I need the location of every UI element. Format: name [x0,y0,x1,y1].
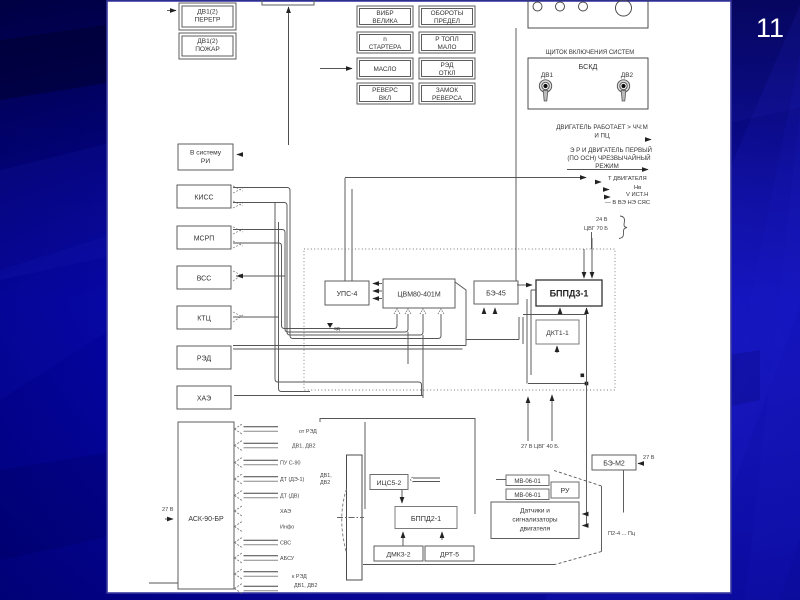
svg-text:ДВ1, ДВ2: ДВ1, ДВ2 [294,583,317,589]
svg-text:МАЛО: МАЛО [438,44,457,51]
block РУ [551,482,579,498]
wire long vertical 2 [279,222,311,392]
block ДКТ1-1 [536,320,579,344]
svg-text:двигателя: двигателя [520,526,551,533]
arrow up into БЭ-45 right [494,308,496,314]
block МВ-06-01 upper [506,475,549,486]
arrow into ПЕРЕГР [167,10,176,12]
box КТЦ [177,306,231,329]
wire vertical x=527 [526,299,528,384]
svg-text:ПРЕДЕЛ: ПРЕДЕЛ [434,18,460,25]
svg-text:— В ВЭ НЭ СЯС: — В ВЭ НЭ СЯС [605,200,650,206]
svg-text:ПУ С-90: ПУ С-90 [280,461,300,467]
svg-text:эд: эд [334,326,341,332]
svg-text:ДВ2: ДВ2 [621,72,634,79]
arrow line under РЕЖИМ [567,169,648,171]
box В систему РИ [178,144,233,170]
svg-text:БЭ-45: БЭ-45 [486,291,506,298]
svg-text:КИСС: КИСС [194,195,213,202]
svg-text:РЭД: РЭД [197,356,211,363]
svg-text:ХАЭ: ХАЭ [280,509,291,515]
АСК connector row 3 [235,458,243,468]
label 24 В ЦВГ-70 Б [584,217,608,232]
toggle switch ДВ1 [539,80,551,101]
svg-text:ОБОРОТЫ: ОБОРОТЫ [431,10,464,17]
svg-text:27 В: 27 В [643,455,655,461]
arrow small 3 [605,196,610,198]
svg-text:ОТКЛ: ОТКЛ [439,70,456,77]
wire stub below ЦВМ80 a [407,332,409,364]
wire ХАЭ [234,395,423,397]
frame line left vertical [364,422,366,509]
arrow ДРТ-5 up to БППД2-1 [441,532,443,540]
wire into МВ-06-01 [496,479,506,481]
svg-text:к РЭД: к РЭД [292,574,307,580]
box РЭД [177,346,231,369]
background streak 2 [545,0,800,600]
arrow into МАСЛО [320,68,352,70]
svg-text:сигнализаторы: сигнализаторы [512,517,557,524]
wire double line from ИЦС5-2 [413,478,440,482]
svg-text:МВ-06-01: МВ-06-01 [514,479,541,485]
svg-text:ДМК3-2: ДМК3-2 [386,552,410,559]
wire БЭ-45 to БППД3-1 with arrow [517,284,532,286]
block УПС-4 [325,281,369,305]
svg-text:ЩИТОК ВКЛЮЧЕНИЯ СИСТЕМ: ЩИТОК ВКЛЮЧЕНИЯ СИСТЕМ [546,50,635,56]
arrow into ВСС [237,275,242,277]
block БЭ-М2 [592,455,636,470]
wire РЭД double line [233,346,466,350]
svg-text:БЭ-М2: БЭ-М2 [603,461,625,468]
svg-text:ДВ1, ДВ2: ДВ1, ДВ2 [292,444,315,450]
block ДРТ-5 [425,546,474,561]
svg-text:ДТ (ДЭ-1): ДТ (ДЭ-1) [280,477,305,483]
wire stem from ЦВГ label down [591,232,593,249]
arrow into Датчики lower [583,525,587,527]
АСК connector row 5 [235,491,243,501]
svg-text:Э Р И ДВИГАТЕЛЬ ПЕРВЫЙ: Э Р И ДВИГАТЕЛЬ ПЕРВЫЙ [570,146,652,154]
svg-text:РЕВЕРС: РЕВЕРС [372,87,398,94]
panel БСКД [528,58,648,109]
АСК connector row 7 [235,522,243,532]
svg-text:ХАЭ: ХАЭ [197,396,211,403]
АСК connector row 6 [235,506,243,516]
annunciator МАСЛО [357,58,413,79]
top partial box [262,0,314,5]
connector ticks МСРП [233,227,243,248]
wire МСРП line 1 [233,230,408,333]
connector ticks КТЦ [233,312,243,322]
annunciator n СТАРТЕРА [357,32,413,53]
svg-text:ИЦС5-2: ИЦС5-2 [377,480,402,487]
wire stub x=519 [518,317,520,340]
wire rail under БППД3-1 [523,314,587,316]
block БППД2-1 [395,507,457,529]
svg-text:ДВ1: ДВ1 [541,72,554,79]
svg-text:ВСС: ВСС [197,276,212,283]
block ДМК3-2 [374,546,423,561]
dashed boundary engine zone upper [554,471,602,487]
text ЭРИ ДВИГАТЕЛЬ ПЕРВЫЙ [567,146,652,170]
arrow into АСК left [165,518,173,520]
annunciator ДВ1(2) ПЕРЕГР [179,3,236,30]
svg-text:ДКТ1-1: ДКТ1-1 [546,330,569,337]
arrow up into БППД3-1 bottom left [559,308,561,314]
svg-text:Нв: Нв [634,185,641,191]
top right control panel with lamps [528,0,648,28]
arrow into БЭ-М2 right [638,463,643,465]
svg-text:ЦВМ80-401М: ЦВМ80-401М [397,292,440,299]
wire horizontal y=339.5 [466,339,519,341]
АСК connector row 10 [235,569,243,579]
arrow up into ДКТ1-1 [556,346,558,353]
wire КИСС line 2 [233,203,423,336]
arrow into В систему РИ [237,154,242,156]
junction square 1 [581,374,585,378]
frame line bottom section top [320,419,475,515]
svg-text:V ИСТ.Н: V ИСТ.Н [626,192,648,198]
annunciator Р ТОПЛ МАЛО [419,32,475,53]
svg-text:ПОЖАР: ПОЖАР [195,46,220,53]
svg-text:ВЕЛИКА: ВЕЛИКА [372,18,398,25]
svg-text:Т ДВИГАТЕЛЯ: Т ДВИГАТЕЛЯ [608,176,647,182]
arrow ЦВМ80 to УПС-4 upper [373,283,382,285]
arrow long from УПС feed [345,177,586,179]
arrow ИЦС5-2 down to БППД2-1 [401,490,403,503]
background light streak left [0,235,110,400]
dotted boundary БСКД core [304,249,615,390]
svg-text:БППД3-1: БППД3-1 [550,289,589,299]
arrow after И ПЦ [645,139,651,141]
toggle switch ДВ2 [617,80,629,101]
svg-text:ЦВГ 70 Б: ЦВГ 70 Б [584,226,608,232]
arrow 27В ЦВГ riser 1 [527,397,529,441]
arrow down into БППД3-1 top right [591,270,593,278]
brace for ЦВГ70 [619,216,627,239]
svg-text:ДВИГАТЕЛЬ РАБОТАЕТ > ЧЧ:М: ДВИГАТЕЛЬ РАБОТАЕТ > ЧЧ:М [556,124,648,131]
wire stub below ЦВМ80 b [422,335,424,398]
svg-text:27 В ЦВГ 40 Б.: 27 В ЦВГ 40 Б. [521,444,560,450]
svg-text:Датчики и: Датчики и [520,508,550,515]
dashed boundary engine zone lower [555,552,602,565]
svg-text:27 В: 27 В [162,507,174,513]
svg-text:БСКД: БСКД [579,62,598,71]
dashed arrowheads into ЦВМ80 bottom [394,309,444,314]
svg-text:ДВ1(2): ДВ1(2) [197,9,218,16]
background streak 4 [690,0,800,600]
svg-text:В систему: В систему [190,150,222,157]
svg-text:ВКЛ: ВКЛ [379,95,391,102]
block ЦВМ80-401М [383,279,455,308]
arrow ЦВМ80 to УПС-4 middle [373,290,382,292]
wire vertical x=523 [522,317,524,344]
annunciator РЕВЕРС ВКЛ [357,83,413,104]
svg-text:СТАРТЕРА: СТАРТЕРА [369,44,402,51]
arrow small 1 [596,181,601,183]
arrow up into top box [288,7,290,16]
wire КТЦ [233,316,279,318]
wire КИСС line 1 [233,188,441,339]
wire stems above БППД3-1 [584,238,592,271]
connector hook right of ИЦС5-2 [411,477,414,482]
svg-text:РУ: РУ [561,488,571,495]
АСК connector row 2 [235,441,243,451]
label ДВ1 ДВ2 right of ДТ [320,473,332,486]
arrow small 2 [604,189,609,191]
block Датчики и сигнализаторы двигателя [491,502,579,539]
svg-text:ДВ2: ДВ2 [320,480,330,486]
annunciator ЗАМОК РЕВЕРСА [419,83,475,104]
svg-text:И ПЦ: И ПЦ [594,133,610,140]
svg-text:от РЭД: от РЭД [299,429,317,435]
svg-text:ДВ1,: ДВ1, [320,473,332,479]
box МСРП [177,226,231,249]
arrow into Датчики upper [583,513,587,515]
wire РЭД riser to ЦВМ80 [455,282,466,346]
svg-text:БППД2-1: БППД2-1 [411,514,441,523]
block ИЦС5-2 [370,475,408,490]
connector arc dashed [342,489,347,553]
annunciator РЭД ОТКЛ [419,58,475,79]
wire bottom long line [363,564,555,566]
connector ticks КИСС [233,186,243,208]
svg-text:СВС: СВС [280,541,291,547]
wire ВСС [236,275,285,277]
АСК connector row 4 [235,474,243,484]
box ВСС [177,266,231,289]
wire МСРП line 2 [233,243,397,329]
svg-text:Р ТОПЛ: Р ТОПЛ [435,36,458,43]
text ДВИГАТЕЛЬ РАБОТАЕТ [556,124,648,140]
connector centerline [337,517,364,519]
arrow ДМК3-2 up to БППД2-1 [402,532,404,546]
svg-text:МСРП: МСРП [194,236,215,243]
background streak 5 [745,0,800,600]
label от РЭД ДВ1 ДВ2 [292,429,317,450]
wire bottom rail y=383.5 [528,383,587,385]
wire double feed into УПС-4 [345,178,352,281]
block АСК-90-БР [178,422,234,589]
box КИСС [177,185,231,208]
background dark streak bottom-left [0,350,760,560]
block БППД3-1 [536,280,602,306]
wire vertical from top box down [288,14,290,145]
svg-text:РИ: РИ [201,158,210,165]
svg-text:ВИБР: ВИБР [376,10,393,17]
АСК connector row 9 [235,553,243,563]
junction square 2 [585,382,589,386]
wire vertical from top panel x=516 [515,28,517,281]
svg-text:УПС-4: УПС-4 [337,291,358,298]
label Тэд [327,323,341,332]
arrow up into БЭ-45 left [483,308,485,314]
arrow ЦВМ80 to УПС-4 lower [373,298,382,300]
svg-text:П2-4 ... Пц: П2-4 ... Пц [608,531,636,537]
svg-text:Инфо: Инфо [280,525,294,531]
block МВ-06-01 lower [506,489,549,500]
label к РЭД ДВ1 ДВ2 [292,574,317,589]
wire into АСК bottom left [149,582,178,584]
wire long vertical x=586.5 down to sensors [586,315,588,526]
annunciator ДВ1(2) ПОЖАР [179,33,236,59]
svg-text:ЗАМОК: ЗАМОК [436,87,458,94]
svg-text:ДТ (ДВ): ДТ (ДВ) [280,494,299,500]
box ХАЭ [177,386,231,409]
background streak 3 [0,0,800,100]
wire long vertical 1 [275,203,422,396]
annunciator ОБОРОТЫ ПРЕДЕЛ [419,6,475,27]
wire engine zone vertical [601,486,603,552]
wire vertical x=531 [531,290,536,375]
svg-text:РЕЖИМ: РЕЖИМ [595,163,619,170]
svg-text:24 В: 24 В [596,217,608,223]
svg-text:(ПО ОСН) ЧРЕЗВЫЧАЙНЫЙ: (ПО ОСН) ЧРЕЗВЫЧАЙНЫЙ [567,154,650,162]
white content panel [107,1,731,593]
svg-text:АБСУ: АБСУ [280,556,295,562]
АСК connector row 11 [235,584,243,594]
wire БЭ-М2 down [623,470,625,513]
svg-text:ДРТ-5: ДРТ-5 [440,552,459,559]
arrow 27В ЦВГ riser 2 [551,395,553,441]
АСК connector row 1 [235,424,243,434]
svg-text:ДВ1(2): ДВ1(2) [197,38,218,45]
background streak 1 [0,0,800,280]
svg-text:КТЦ: КТЦ [197,316,211,323]
svg-text:ПЕРЕГР: ПЕРЕГР [195,17,222,24]
block БЭ-45 [474,281,518,304]
connector ticks ВСС [233,271,243,281]
connector plate (tall rect) [347,455,363,580]
arrow down into БППД3-1 top left [583,270,585,278]
svg-text:РЭД: РЭД [441,62,455,69]
annunciator ВИБР ВЕЛИКА [357,6,413,27]
arrow up into БППД3-1 bottom right [586,308,588,314]
svg-text:МАСЛО: МАСЛО [373,66,396,73]
svg-text:МВ-06-01: МВ-06-01 [514,493,541,499]
svg-text:АСК-90-БР: АСК-90-БР [188,516,224,523]
svg-text:n: n [383,36,387,43]
svg-text:РЕВЕРСА: РЕВЕРСА [432,95,463,102]
АСК connector row 8 [235,538,243,548]
svg-text:11: 11 [756,13,784,43]
